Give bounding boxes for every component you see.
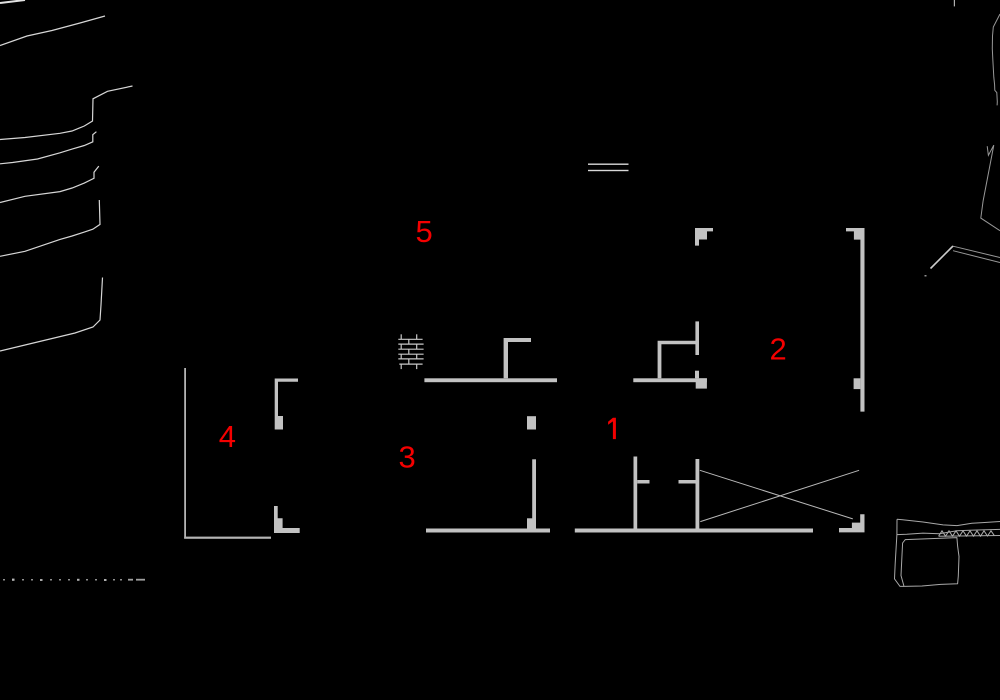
right sketch: top tick: [954, 0, 955, 6]
wall: room 3 upper horizontal wall: [424, 378, 557, 382]
wall: horizontal wall right of room 5: [633, 378, 707, 382]
bottom-right sketch: inner box: [901, 538, 959, 587]
wall: room 2 top-left stepped bracket: [695, 228, 713, 246]
right sketch: double line upper: [953, 246, 1000, 257]
right sketch: V notch and diagonal: [981, 145, 1000, 231]
wall: left-bottom bracket of room 3: [274, 506, 300, 533]
bottom-right sketch: top outline: [897, 519, 1000, 525]
brick hatch block: [398, 334, 423, 369]
wall: bottom wall right segment: [575, 529, 813, 533]
contour line L4: [0, 132, 96, 164]
wall: room 1 right vertical: [696, 459, 700, 529]
wall: short vertical above corner: [695, 321, 699, 355]
dotted line bottom left: [3, 579, 145, 581]
X cross diagonal A: [700, 470, 853, 519]
wall: short vertical stub above block: [695, 371, 699, 379]
contour line L3: [0, 86, 133, 140]
right sketch: bright short diagonal: [931, 246, 954, 269]
wall: room 1 right tab: [679, 480, 696, 484]
wall: room 1 left tab: [637, 480, 649, 484]
wall: corner block: [696, 378, 707, 388]
contour line L7: [0, 278, 103, 352]
svg-text:4: 4: [219, 419, 236, 454]
wall: left-top bracket of room 3: [275, 379, 298, 430]
wall: hook above room 3 wall: [504, 338, 531, 378]
room 4 boundary vertical line: [184, 368, 186, 539]
contour line L1 top-left: [0, 0, 25, 3]
contour line L2: [0, 16, 105, 46]
wall: room 1 left vertical: [634, 457, 638, 529]
right sketch: right edge curve: [992, 14, 1000, 105]
wall: middle vertical wall top block: [527, 416, 536, 429]
room 4 boundary horizontal line: [184, 537, 271, 539]
wall: room 2 right wall with stepped top: [846, 228, 865, 412]
svg-text:3: 3: [399, 440, 416, 475]
svg-text:2: 2: [770, 331, 787, 366]
right sketch: double line lower: [953, 251, 1000, 263]
double line symbol top center: [588, 164, 629, 165]
contour line L6: [0, 200, 100, 256]
wall: middle vertical wall bottom block: [527, 518, 536, 528]
wall: room 2 right wall tab: [854, 378, 861, 389]
bottom-right sketch: left edge: [895, 519, 905, 586]
contour line L5: [0, 166, 99, 202]
svg-text:5: 5: [416, 214, 433, 249]
right sketch: small dot: [925, 275, 927, 277]
bottom-right sketch: second line: [897, 529, 1000, 534]
wall: interior corner walls between rooms 5 and 2: [658, 341, 699, 379]
room label 1: [608, 418, 616, 439]
wall: middle vertical wall: [532, 459, 536, 528]
wall: bottom-right stepped bracket: [839, 514, 865, 532]
X cross diagonal B: [700, 470, 859, 521]
wall: bottom wall left segment: [426, 529, 550, 533]
bottom-right sketch: truss zigzag: [939, 531, 995, 536]
bottom-right sketch: bottom chord: [939, 535, 1000, 538]
